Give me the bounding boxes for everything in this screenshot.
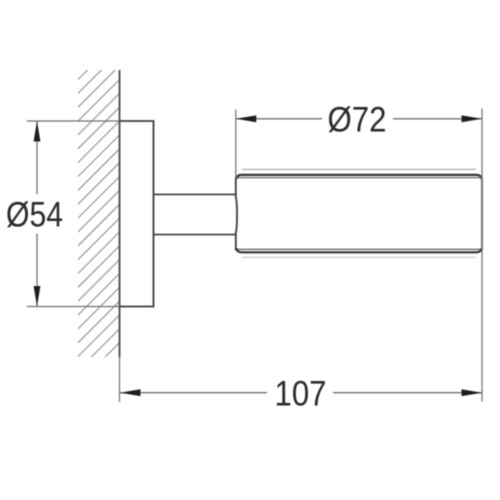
dim54 line lower (36, 234, 38, 307)
wall face line (119, 70, 121, 357)
ring left face (236, 178, 237, 251)
dim72 arrow right (462, 115, 483, 122)
dim107 line left (120, 392, 267, 394)
dim72 line right (393, 118, 482, 120)
neck bottom line (154, 234, 236, 236)
ring bottom inner edge (236, 248, 482, 250)
dim107 line right (333, 392, 482, 394)
dim54 arrow down (34, 286, 41, 307)
mounting plate (120, 121, 154, 307)
extension line dim54 bottom (27, 306, 154, 308)
ring right face (481, 178, 483, 251)
dim107 arrow right (462, 389, 483, 396)
dim72 ext line left (235, 110, 237, 179)
ring bottom silhouette (236, 248, 482, 252)
dim54 arrow up (34, 121, 41, 142)
wall hatching (74, 34, 124, 403)
neck top line (154, 193, 236, 195)
dim72 arrow left (236, 115, 256, 122)
dim107 arrow left (120, 389, 141, 396)
dim54 line upper (36, 121, 38, 194)
ring top faint edge (242, 168, 476, 170)
dim72 ext line right (full right vertical) (481, 109, 483, 402)
dim72 line left (236, 118, 322, 120)
svg-text:Ø72: Ø72 (328, 101, 387, 140)
svg-text:107: 107 (275, 374, 327, 413)
dim107 ext line left (119, 357, 121, 402)
ring bottom faint edge (242, 256, 476, 258)
extension line dim54 top (27, 120, 154, 122)
svg-text:Ø54: Ø54 (6, 196, 63, 235)
ring top inner edge (236, 177, 482, 179)
ring top silhouette (236, 175, 482, 179)
